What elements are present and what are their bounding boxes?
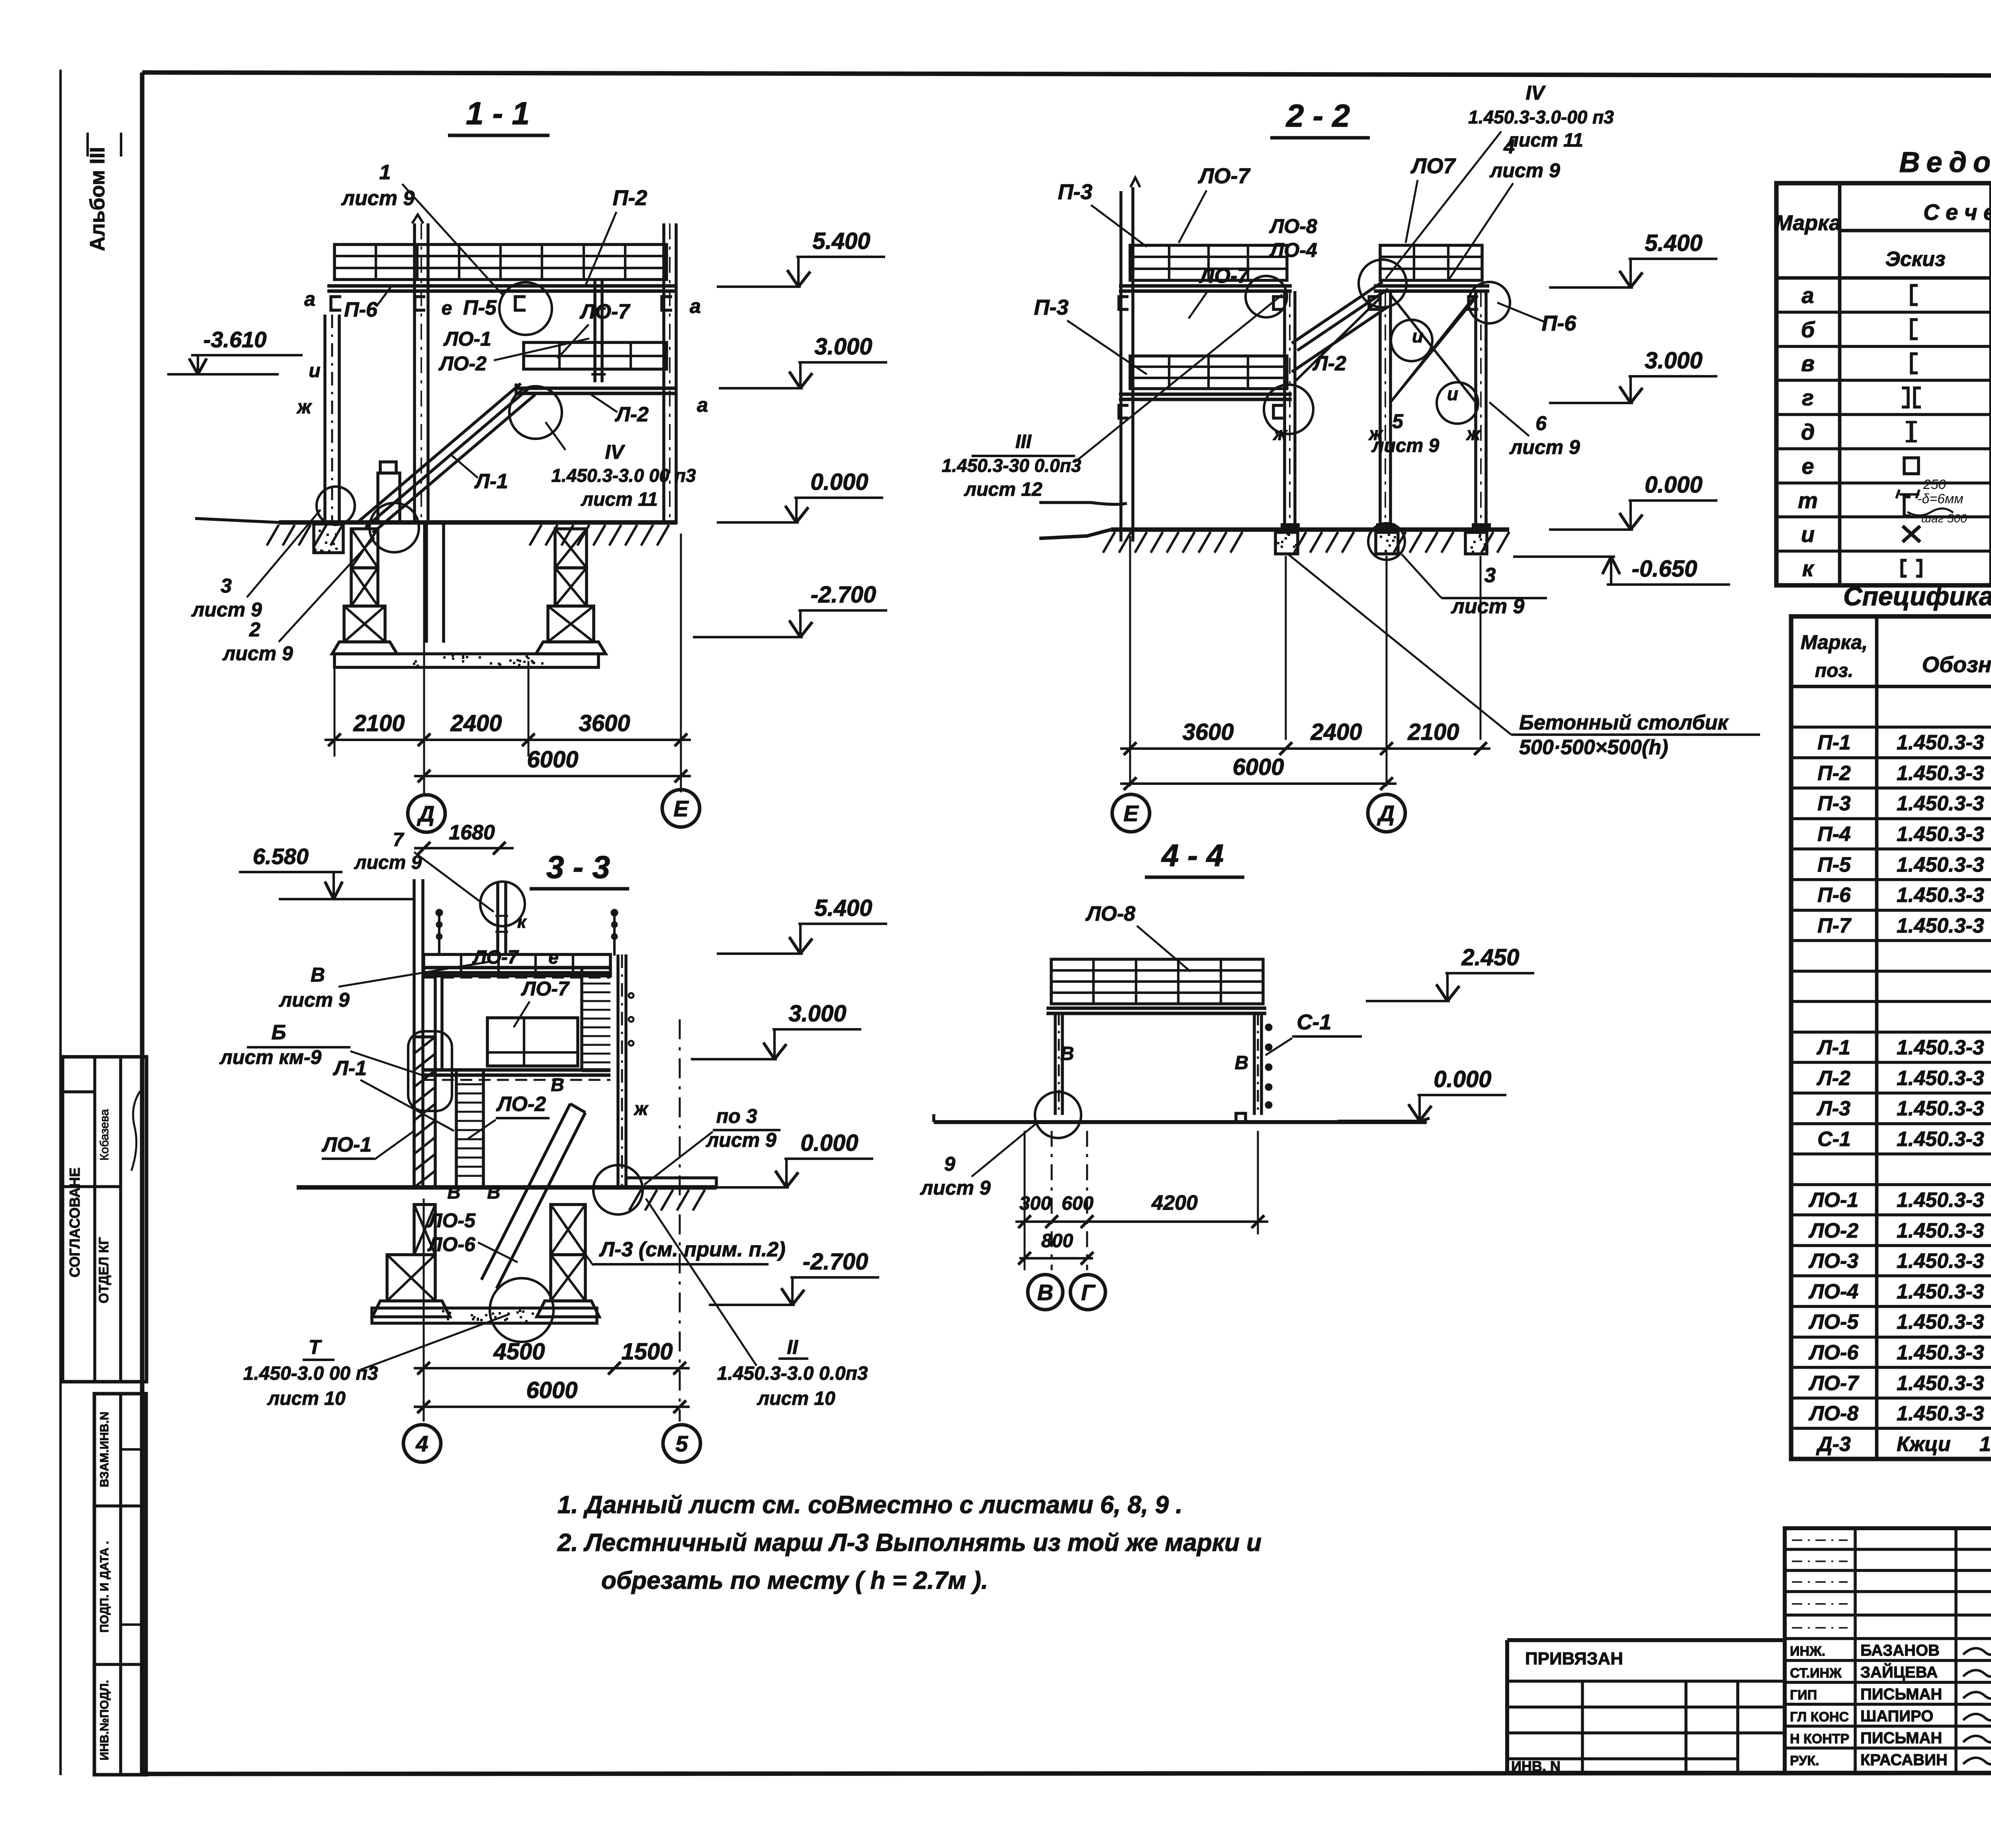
svg-text:Л-1: Л-1 — [474, 470, 508, 493]
section 1-1: middle platform beam L-2 — [516, 387, 677, 390]
section 3-3: capsule outline on wall — [408, 1031, 452, 1111]
svg-text:В: В — [1235, 1052, 1249, 1074]
svg-text:ЛО-7: ЛО-7 — [1197, 164, 1251, 188]
section 1-1: stair L-1 stringers — [358, 383, 521, 522]
svg-text:ж: ж — [1465, 423, 1481, 444]
section 3-3: big circle at ground right — [593, 1165, 643, 1214]
svg-text:лист 10: лист 10 — [757, 1388, 835, 1409]
svg-text:П-3: П-3 — [1034, 295, 1069, 319]
svg-text:ВЗАМ.ИНВ.N: ВЗАМ.ИНВ.N — [98, 1412, 111, 1487]
section 3-3: machine box on floor — [487, 1018, 578, 1066]
svg-text:д: д — [1801, 419, 1815, 444]
svg-text:В: В — [1037, 1280, 1053, 1305]
svg-text:СОГЛАСОВАНЕ: СОГЛАСОВАНЕ — [66, 1167, 83, 1277]
svg-text:1.450.3-3.0 00 п3: 1.450.3-3.0 00 п3 — [551, 465, 696, 486]
svg-text:ЛО-5: ЛО-5 — [427, 1209, 476, 1232]
section 2-2: callout circles — [1359, 260, 1406, 307]
section 2-2: middle-left platform P-3 grid — [1130, 356, 1287, 389]
svg-text:РУК.: РУК. — [1790, 1753, 1819, 1768]
svg-text:ГЛ КОНС: ГЛ КОНС — [1790, 1709, 1849, 1725]
svg-text:Б: Б — [272, 1021, 286, 1044]
svg-text:3: 3 — [1484, 564, 1496, 587]
svg-text:1.450.3-3: 1.450.3-3 — [1897, 1219, 1984, 1242]
svg-text:ЛО-5: ЛО-5 — [1808, 1310, 1859, 1334]
svg-text:2.450: 2.450 — [1461, 945, 1519, 970]
vedomost table frame — [1776, 183, 1991, 585]
svg-text:а: а — [1801, 283, 1814, 308]
svg-text:лист 9: лист 9 — [354, 852, 422, 873]
svg-text:1.450.3-3: 1.450.3-3 — [1897, 1372, 1984, 1395]
svg-text:1.450.3-30 0.0п3: 1.450.3-30 0.0п3 — [942, 455, 1082, 476]
section 3-3: stair hatch right (steps) — [582, 974, 610, 976]
svg-text:лист 11: лист 11 — [1506, 130, 1583, 151]
section 3-3: underground footing left — [414, 1205, 435, 1255]
svg-text:лист 9: лист 9 — [191, 598, 262, 621]
signature squiggles — [1963, 1645, 1991, 1655]
svg-text:Л-3: Л-3 — [1816, 1097, 1850, 1120]
svg-text:ЛО-4: ЛО-4 — [1808, 1280, 1858, 1303]
svg-text:ПИСЬМАН: ПИСЬМАН — [1860, 1729, 1942, 1747]
section 2-2: channel brackets a — [1119, 297, 1128, 309]
privyazan block — [1507, 1638, 1785, 1642]
svg-text:5.400: 5.400 — [814, 895, 872, 921]
svg-text:6: 6 — [1535, 412, 1547, 434]
svg-text:ЛО-8: ЛО-8 — [1085, 902, 1135, 925]
svg-text:3 - 3: 3 - 3 — [546, 849, 610, 885]
svg-text:ж: ж — [633, 1098, 649, 1119]
svg-text:лист км-9: лист км-9 — [219, 1046, 322, 1068]
svg-text:4200: 4200 — [1151, 1191, 1198, 1214]
svg-text:ЛО-1: ЛО-1 — [443, 328, 491, 350]
section 1-1: channel brackets under beam — [331, 297, 341, 310]
svg-text:5: 5 — [1392, 410, 1404, 432]
vedomost row lines — [1776, 311, 1991, 314]
svg-text:-0.650: -0.650 — [1632, 556, 1697, 582]
svg-text:6.580: 6.580 — [253, 844, 309, 869]
svg-text:Г: Г — [1081, 1280, 1096, 1305]
svg-text:ЛО-7: ЛО-7 — [521, 978, 570, 1000]
svg-text:0.000: 0.000 — [1434, 1066, 1491, 1092]
svg-text:Д: Д — [1377, 801, 1394, 826]
section 1-1: footing tower left — [351, 529, 378, 568]
svg-text:1.450.3-3.0 0.0п3: 1.450.3-3.0 0.0п3 — [717, 1363, 868, 1384]
svg-text:5.400: 5.400 — [812, 228, 870, 254]
specification frame — [1791, 616, 1991, 1459]
svg-text:В: В — [487, 1182, 500, 1203]
svg-text:ИНВ.№ПОДЛ.: ИНВ.№ПОДЛ. — [98, 1680, 111, 1760]
svg-text:БАЗАНОВ: БАЗАНОВ — [1860, 1642, 1940, 1659]
section 2-2: column base plates — [1281, 523, 1300, 530]
svg-text:СТ.ИНЖ: СТ.ИНЖ — [1790, 1666, 1842, 1681]
svg-text:е: е — [548, 947, 559, 968]
section 2-2: columns — [1283, 291, 1286, 530]
section 4-4: columns — [1054, 1013, 1057, 1115]
title block: signature rows — [1785, 1659, 1991, 1662]
svg-text:2: 2 — [249, 618, 260, 641]
svg-text:1.450.3-3 И3: 1.450.3-3 И3 — [1897, 1097, 1991, 1120]
section 3-3: big circle at footing — [490, 1278, 553, 1342]
section 2-2: braces between columns — [1295, 298, 1380, 381]
section 2-2: ground line — [1111, 527, 1509, 532]
svg-text:и: и — [1801, 522, 1815, 547]
svg-text:Бетонный столбик: Бетонный столбик — [1519, 711, 1729, 734]
section 1-1: center column — [413, 223, 416, 524]
section 3-3: hatched wall pier — [414, 1037, 435, 1187]
svg-text:лист 9: лист 9 — [222, 642, 293, 665]
svg-text:к: к — [517, 912, 527, 932]
svg-text:по 3: по 3 — [716, 1105, 757, 1127]
svg-text:IV: IV — [605, 441, 625, 463]
svg-text:ИНВ. N: ИНВ. N — [1511, 1758, 1561, 1774]
page border frame — [142, 72, 1991, 76]
svg-text:5.400: 5.400 — [1645, 230, 1702, 256]
svg-text:ЛО-2: ЛО-2 — [496, 1093, 546, 1116]
section 1-1: center pier below ground — [425, 524, 428, 643]
section 4-4: platform deck — [1051, 959, 1263, 1004]
svg-text:1.450.3-3: 1.450.3-3 — [1897, 1128, 1984, 1151]
svg-text:Альбом III: Альбом III — [86, 147, 109, 251]
svg-text:ж: ж — [1272, 423, 1288, 444]
svg-text:800: 800 — [1041, 1230, 1073, 1252]
svg-text:Кобазева: Кобазева — [98, 1109, 111, 1161]
svg-text:IV: IV — [1526, 82, 1546, 104]
svg-text:4500: 4500 — [493, 1339, 545, 1365]
svg-text:1.450.3-3: 1.450.3-3 — [1897, 792, 1984, 815]
svg-text:4 - 4: 4 - 4 — [1161, 838, 1224, 873]
signature squiggle — [131, 1091, 140, 1171]
svg-text:Л-3 (см. прим. п.2): Л-3 (см. прим. п.2) — [598, 1238, 785, 1261]
svg-text:П-3: П-3 — [1817, 792, 1851, 815]
svg-text:и: и — [1412, 326, 1423, 346]
svg-text:В: В — [551, 1074, 564, 1095]
svg-text:б: б — [1801, 317, 1815, 342]
svg-text:2400: 2400 — [450, 710, 502, 736]
svg-text:а: а — [690, 295, 701, 317]
svg-text:В: В — [1060, 1043, 1074, 1064]
svg-text:-δ=6мм: -δ=6мм — [1917, 491, 1964, 506]
section 1-1: right column — [662, 223, 665, 524]
section 2-2: dimension row 3600/2400/2100 — [1120, 747, 1490, 750]
svg-text:лист 9: лист 9 — [920, 1177, 991, 1199]
svg-text:1.450.3-3: 1.450.3-3 — [1897, 884, 1984, 907]
svg-text:1.450.3-3: 1.450.3-3 — [1897, 1067, 1984, 1090]
section 2-2: middle-left platform beam — [1119, 393, 1292, 396]
svg-text:600: 600 — [1062, 1193, 1093, 1214]
section 1-1: left pedestal under wall — [314, 524, 343, 553]
svg-text:ж: ж — [296, 397, 312, 418]
svg-text:1.450.3-3: 1.450.3-3 — [1897, 1341, 1984, 1364]
svg-text:к: к — [1802, 556, 1815, 581]
section 3-3: mid floor — [424, 1068, 610, 1072]
section 3-3: underground footing right — [551, 1205, 585, 1255]
svg-text:3600: 3600 — [1182, 719, 1234, 745]
svg-text:ПИСЬМАН: ПИСЬМАН — [1860, 1686, 1942, 1703]
section 3-3: ground line — [297, 1185, 716, 1189]
svg-text:7: 7 — [393, 829, 405, 851]
section 2-2: ground hatch — [1103, 532, 1115, 553]
section 2-2: axis circles E, D — [1112, 794, 1150, 832]
section 2-2: top-right platform grid — [1380, 245, 1482, 280]
section 4-4: rivet dots on right column — [1266, 1025, 1271, 1030]
svg-text:1. Данный лист см. соВмест: 1. Данный лист см. соВместно с листами 6… — [557, 1491, 1183, 1519]
section 4-4: base circle — [1035, 1092, 1081, 1138]
svg-text:С-1: С-1 — [1297, 1010, 1331, 1034]
section 1-1: left wall column (zh) with dashes — [323, 315, 327, 524]
svg-text:е: е — [1801, 454, 1814, 479]
vedomost eskiz glyphs — [1911, 286, 1918, 305]
svg-text:1.450.3-3: 1.450.3-3 — [1897, 762, 1984, 785]
svg-text:Кжци 16.00.00: Кжци 16.00.00 — [1897, 1433, 1991, 1456]
svg-text:В: В — [311, 964, 325, 986]
svg-text:г: г — [1802, 385, 1814, 410]
section 1-1: duct block near stair foot — [378, 473, 400, 522]
section 1-1: baluster post near top landing — [593, 280, 597, 382]
svg-text:ЛО-7: ЛО-7 — [1808, 1372, 1859, 1395]
svg-text:ГИП: ГИП — [1790, 1688, 1817, 1703]
svg-text:ЛО7: ЛО7 — [1410, 154, 1456, 178]
svg-text:а: а — [304, 288, 315, 310]
section 1-1: dimension row 6000 — [414, 775, 691, 777]
section 3-3: base slab — [372, 1308, 597, 1323]
svg-text:П-5: П-5 — [1817, 853, 1851, 876]
svg-text:ЛО-4: ЛО-4 — [1269, 239, 1317, 261]
svg-text:ПОДП. И ДАТА .: ПОДП. И ДАТА . — [98, 1541, 111, 1633]
section 1-1: middle platform (3.000) grid — [524, 342, 667, 369]
svg-text:-2.700: -2.700 — [811, 582, 876, 608]
section 3-3: railing posts with balls — [438, 914, 440, 956]
svg-text:лист 9: лист 9 — [706, 1129, 776, 1151]
svg-text:-3.610: -3.610 — [203, 327, 267, 352]
section 1-1: axis guide verticals — [334, 669, 336, 757]
svg-text:и: и — [309, 360, 320, 381]
svg-text:1.450-3.0 00 п3: 1.450-3.0 00 п3 — [243, 1363, 378, 1384]
section 1-1: ground hatch — [267, 525, 279, 546]
section 2-2: concrete footings — [1275, 532, 1298, 554]
svg-text:2100: 2100 — [1407, 719, 1459, 745]
section 2-2: stair L-2 — [1292, 282, 1383, 343]
section 3-3: right rail dots — [629, 993, 634, 998]
svg-text:1: 1 — [379, 161, 391, 184]
svg-text:Спецификация элементоВ ограж: Спецификация элементоВ ограждении, лестн… — [1843, 581, 1991, 611]
svg-text:лист 9: лист 9 — [341, 187, 415, 210]
svg-text:1.450.3-3: 1.450.3-3 — [1897, 1036, 1984, 1059]
svg-text:ЗАЙЦЕВА: ЗАЙЦЕВА — [1860, 1663, 1938, 1681]
svg-text:ШАПИРО: ШАПИРО — [1860, 1707, 1933, 1725]
section 2-2: axis guides — [1129, 536, 1131, 786]
svg-text:1.450.3-3: 1.450.3-3 — [1897, 1280, 1984, 1303]
svg-text:1.450.3-3: 1.450.3-3 — [1897, 853, 1984, 876]
section 3-3: K post detail circle at top — [480, 882, 525, 926]
svg-text:ЛО-8: ЛО-8 — [1269, 215, 1317, 237]
svg-text:1.450.3-3: 1.450.3-3 — [1897, 1250, 1984, 1273]
svg-text:Л-1: Л-1 — [1816, 1036, 1850, 1059]
svg-text:П-2: П-2 — [1817, 762, 1851, 785]
svg-text:Л-2: Л-2 — [1816, 1067, 1850, 1090]
section 2-2: top-left platform P-3 grid — [1130, 245, 1287, 280]
svg-text:П-6: П-6 — [344, 298, 378, 321]
svg-text:-2.700: -2.700 — [803, 1249, 868, 1275]
svg-text:С е ч е н и е: С е ч е н и е — [1923, 199, 1991, 225]
svg-text:Марка: Марка — [1775, 211, 1841, 235]
svg-text:С-1: С-1 — [1817, 1128, 1851, 1151]
svg-text:ЛО-6: ЛО-6 — [427, 1233, 476, 1255]
svg-text:II: II — [787, 1336, 798, 1358]
section 4-4: base line — [934, 1120, 1427, 1124]
svg-text:Л-2: Л-2 — [614, 403, 649, 426]
svg-text:ЛО-8: ЛО-8 — [1808, 1402, 1858, 1425]
svg-text:Е: Е — [1123, 801, 1139, 826]
section 3-3: top platform deck — [424, 954, 610, 976]
svg-text:П-1: П-1 — [1817, 731, 1851, 754]
svg-text:ЛО-6: ЛО-6 — [1808, 1341, 1859, 1364]
svg-text:Обозначение: Обозначение — [1922, 652, 1991, 677]
svg-text:обрезать по месту ( h = 2.7: обрезать по месту ( h = 2.7м ). — [601, 1567, 988, 1594]
svg-text:в: в — [1801, 351, 1815, 376]
svg-text:ЛО-7: ЛО-7 — [472, 947, 519, 968]
title block: revision table — [1785, 1528, 1991, 1773]
section 4-4: platform beam — [1046, 1007, 1266, 1010]
svg-text:Ведомость элементоВ: Ведомость элементоВ — [1899, 147, 1991, 178]
svg-text:лист 9: лист 9 — [1509, 436, 1580, 458]
svg-text:9: 9 — [944, 1153, 955, 1175]
svg-text:поз.: поз. — [1815, 660, 1853, 681]
page outer trim line (left) — [59, 70, 62, 1775]
section 3-3: right outer column — [616, 954, 620, 1185]
svg-text:Н КОНТР: Н КОНТР — [1790, 1731, 1849, 1746]
svg-text:П-5: П-5 — [463, 296, 497, 319]
svg-text:1.450.3-3: 1.450.3-3 — [1897, 1402, 1984, 1425]
section 3-3: tall left mast — [413, 879, 416, 1187]
vedomost header lines — [1840, 229, 1991, 233]
svg-text:П-4: П-4 — [1817, 823, 1851, 846]
svg-text:ПРИВЯЗАН: ПРИВЯЗАН — [1525, 1649, 1623, 1668]
section 1-1: top platform main beams — [327, 284, 677, 288]
svg-text:III: III — [1015, 431, 1032, 452]
svg-text:1.450.3-3: 1.450.3-3 — [1897, 731, 1984, 754]
svg-text:1.450.3-3: 1.450.3-3 — [1897, 914, 1984, 937]
svg-text:ЛО-1: ЛО-1 — [1808, 1189, 1858, 1212]
section 3-3: upper room walls — [434, 976, 437, 1071]
svg-text:ИНЖ.: ИНЖ. — [1790, 1644, 1825, 1659]
svg-text:лист 12: лист 12 — [964, 479, 1042, 500]
svg-text:Д: Д — [417, 801, 434, 826]
svg-text:е: е — [442, 298, 452, 319]
svg-text:3.000: 3.000 — [814, 334, 872, 360]
svg-text:3600: 3600 — [579, 710, 630, 736]
section 3-3: axis circles 4,5 — [403, 1425, 441, 1462]
svg-text:ЛО-2: ЛО-2 — [438, 352, 487, 375]
svg-text:5: 5 — [675, 1431, 688, 1456]
svg-text:В: В — [447, 1182, 460, 1203]
section 3-3: dims 4500/1500 and 6000 — [414, 1367, 690, 1369]
section 3-3: ladder L-1 — [455, 1072, 458, 1185]
svg-text:1 - 1: 1 - 1 — [466, 96, 530, 131]
svg-text:0.000: 0.000 — [800, 1130, 858, 1156]
left margin stamp: soglasovane block — [63, 1057, 147, 1382]
section 2-2: left wall column — [1119, 191, 1123, 542]
section 3-3: ground platform right — [626, 1178, 716, 1187]
svg-text:2100: 2100 — [353, 710, 405, 736]
svg-text:2400: 2400 — [1310, 719, 1362, 745]
section 1-1: dimension row 2100/2400/3600 — [325, 739, 691, 741]
section 3-3: stair flight L-3 below ground — [481, 1104, 570, 1280]
svg-text:П-7: П-7 — [1817, 914, 1852, 937]
svg-text:ОТДЕЛ КГ: ОТДЕЛ КГ — [96, 1237, 111, 1304]
svg-text:ЛО-3: ЛО-3 — [1808, 1250, 1858, 1273]
svg-text:П-6: П-6 — [1817, 884, 1851, 907]
svg-text:Эскиз: Эскиз — [1885, 248, 1946, 271]
section 1-1: axis circles D, E — [408, 795, 445, 832]
svg-text:Е: Е — [673, 796, 689, 821]
svg-text:ЛО-7: ЛО-7 — [1199, 264, 1250, 287]
svg-text:ЛО-2: ЛО-2 — [1808, 1219, 1858, 1242]
svg-text:1.450.3-3: 1.450.3-3 — [1897, 823, 1984, 846]
svg-text:1500: 1500 — [621, 1339, 673, 1365]
svg-text:1.450.3-3: 1.450.3-3 — [1897, 1310, 1984, 1334]
revision table dash-dot marks — [1792, 1539, 1848, 1541]
svg-text:Т: Т — [309, 1336, 323, 1358]
svg-text:шаг 500: шаг 500 — [1921, 512, 1967, 525]
svg-text:0.000: 0.000 — [1645, 472, 1702, 498]
svg-text:0.000: 0.000 — [810, 469, 868, 495]
section 4-4: axis circles V, G — [1028, 1275, 1063, 1310]
svg-text:1.450.3-3: 1.450.3-3 — [1897, 1189, 1984, 1212]
section 1-1: top platform P-2 deck grid — [334, 244, 667, 280]
svg-text:ж: ж — [1368, 423, 1383, 444]
svg-text:6000: 6000 — [1232, 754, 1284, 780]
svg-text:Марка,: Марка, — [1801, 631, 1868, 653]
svg-text:3.000: 3.000 — [788, 1001, 846, 1027]
svg-text:П-6: П-6 — [1542, 311, 1577, 335]
section 3-3: axis guides — [423, 1199, 425, 1422]
svg-text:лист 9: лист 9 — [279, 989, 350, 1011]
svg-text:m: m — [1798, 488, 1818, 513]
svg-text:1680: 1680 — [449, 821, 495, 844]
svg-text:2. Лестничный марш Л-3 Вып: 2. Лестничный марш Л-3 Выполнять из той … — [557, 1529, 1261, 1557]
svg-text:Л-2: Л-2 — [1312, 352, 1346, 375]
svg-text:ЛО-7: ЛО-7 — [579, 300, 630, 323]
svg-text:6000: 6000 — [526, 1377, 577, 1403]
svg-text:1.450.3-3.0-00 п3: 1.450.3-3.0-00 п3 — [1468, 107, 1614, 127]
svg-text:6000: 6000 — [527, 747, 578, 772]
section 1-1: footing tower right — [555, 529, 587, 568]
svg-text:лист 11: лист 11 — [581, 489, 658, 510]
section 1-1: callout circles — [499, 282, 552, 335]
svg-text:Д-3: Д-3 — [1816, 1433, 1851, 1456]
svg-text:2 - 2: 2 - 2 — [1285, 98, 1350, 133]
section 2-2: dimension row 6000 — [1120, 782, 1396, 785]
svg-text:Л-1: Л-1 — [332, 1057, 367, 1080]
svg-text:лист 10: лист 10 — [267, 1388, 346, 1409]
svg-text:КРАСАВИН: КРАСАВИН — [1860, 1751, 1948, 1769]
section 1-1: base slab with concrete dots — [334, 654, 598, 667]
svg-text:4: 4 — [415, 1431, 428, 1456]
svg-text:и: и — [1447, 383, 1458, 404]
svg-text:3: 3 — [221, 575, 232, 597]
svg-text:П-3: П-3 — [1058, 180, 1093, 204]
svg-text:лист 9: лист 9 — [1489, 159, 1560, 182]
section 2-2: top-right platform beam — [1374, 284, 1489, 288]
svg-text:500·500×500(h): 500·500×500(h) — [1519, 736, 1668, 759]
svg-text:250: 250 — [1923, 477, 1946, 492]
svg-text:а: а — [697, 394, 708, 416]
section 1-1: ground line — [279, 520, 677, 524]
vedomost table columns — [1838, 183, 1842, 585]
section 2-2: top-left platform beam — [1119, 284, 1292, 288]
svg-text:ЛО-1: ЛО-1 — [321, 1133, 372, 1156]
left margin stamp: inv blocks — [94, 1394, 146, 1775]
svg-text:3.000: 3.000 — [1645, 348, 1702, 374]
